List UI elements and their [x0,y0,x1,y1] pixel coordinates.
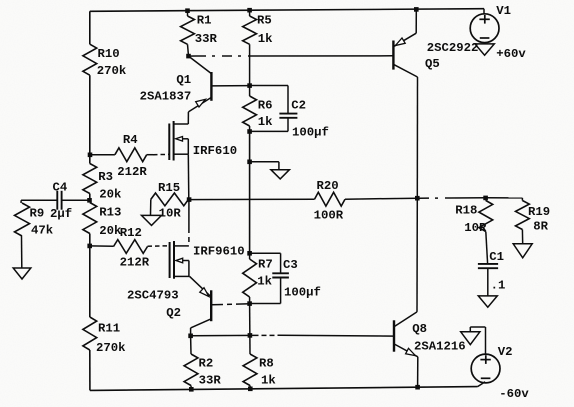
svg-text:-60v: -60v [499,387,529,401]
mosfet M2 IRF9610 channel bar [173,241,175,279]
wire R7 bottom lead [249,297,251,304]
wire left bias bus segment top [89,11,91,44]
label C1 value .1 [489,250,505,293]
wire R9 to ground [21,236,23,268]
wire C1 to ground [487,268,489,296]
label C4 value 2uf [50,180,72,221]
svg-text:Q1: Q1 [176,73,191,87]
wire output line dash-dot [419,197,450,199]
ground R15 [142,215,162,225]
transistor Q8 emitter arrow [406,348,416,355]
wire C3 bottom [250,278,281,304]
mosfet M1 IRF610 body-source join [187,139,189,154]
resistor R11 [83,317,97,350]
svg-text:R10: R10 [98,47,120,61]
node Q1 base / R5 bottom [247,83,252,88]
svg-text:20k: 20k [99,187,122,201]
svg-text:R2: R2 [199,357,214,371]
svg-text:33R: 33R [195,32,218,46]
svg-text:Q5: Q5 [425,57,440,71]
label R19 value 8R [528,205,550,234]
node R1 top [185,8,190,13]
label Q8 [412,322,427,336]
svg-text:R12: R12 [120,226,142,240]
svg-text:R19: R19 [528,205,550,219]
wire output line left [189,198,314,200]
wire mid bus R6 to ground tap [249,132,251,162]
wire Q8 collector up [416,198,418,312]
svg-text:C4: C4 [53,180,68,194]
label R3 value 20k [98,170,122,201]
mosfet M1 IRF610 body tap arrow [176,137,189,142]
label R13 value 20k [99,205,122,238]
label Q1 part 2SA1837 [140,90,192,104]
mosfet M2 IRF9610 body tap arrow [176,258,189,263]
resistor R4 [115,148,147,162]
label R12 value 212R [120,226,150,270]
svg-text:212R: 212R [120,255,150,269]
wire Q5 emitter down [416,77,418,198]
resistor R12 [114,240,148,254]
svg-text:20k: 20k [99,224,122,238]
wire R7 top lead [249,253,251,259]
svg-text:R1: R1 [197,13,212,27]
transistor Q2 collector [191,319,212,328]
wire left bus R10 to R3 [89,75,91,163]
voltage source V1 [470,14,499,43]
svg-text:270k: 270k [96,341,126,355]
label R6 value 1k [258,99,273,130]
node ground tap [247,160,252,165]
svg-text:R8: R8 [259,357,274,371]
label R11 value 270k [96,322,126,355]
capacitor C4 [57,191,61,210]
svg-text:2SC4793: 2SC4793 [127,289,179,303]
wire R2 bottom lead [190,386,192,390]
svg-text:Q2: Q2 [166,306,181,320]
transistor Q8 collector diag [394,312,417,327]
svg-text:1k: 1k [257,274,272,288]
mosfet M2 IRF9610 gate bar [169,242,171,278]
mosfet M1 IRF610 source tap [174,153,189,155]
wire R15 right lead [188,198,191,200]
svg-text:33R: 33R [199,373,222,387]
resistor R1 [181,16,195,44]
ground C1 [478,296,497,307]
label R15 value 10R [158,181,181,221]
label C2 value 100uf [291,98,329,139]
resistor R13 [83,203,97,234]
transistor Q2 emitter arrow [200,288,209,297]
svg-text:2SA1216: 2SA1216 [414,339,466,353]
resistor R3 [83,164,97,194]
svg-text:10R: 10R [159,206,182,220]
label V2 [498,345,513,359]
ground R19 [513,244,532,258]
label R1 value 33R [195,13,218,46]
wire R1 bottom lead [188,44,189,56]
svg-text:V1: V1 [496,4,511,18]
wire R6 top lead [249,86,251,96]
wire Q2 base dashed [218,303,237,306]
transistor Q1 emitter [188,97,211,112]
label R10 value 270k [97,47,127,78]
transistor Q5 collector arrow [395,38,405,46]
node R1 bottom / Q1 collector [186,54,191,59]
svg-text:2SC2922: 2SC2922 [427,41,479,55]
svg-text:R18: R18 [455,204,477,218]
resistor R9 [15,200,30,236]
wire Q8 emitter down [417,357,419,387]
resistor R8 [243,354,257,386]
svg-text:2µf: 2µf [50,207,72,221]
node R8 crossing [248,333,253,338]
wire ground tap [250,162,279,170]
svg-text:R9: R9 [30,207,45,221]
svg-text:R11: R11 [98,322,120,336]
resistor R10 [83,44,97,75]
svg-text:270k: 270k [97,64,127,78]
mosfet M2 IRF9610 drain tap [174,245,189,247]
ground V1 [475,44,494,55]
wire Q2 to Q8 base dash-dot [254,334,280,336]
node R7 top [247,251,252,256]
node R18 top [483,196,488,201]
node Q5 collector top [414,7,419,12]
svg-text:R3: R3 [98,170,113,184]
svg-text:Q8: Q8 [412,322,427,336]
wire R12 right lead [90,245,114,247]
wire Q2 to Q8 base solid left [191,334,254,336]
svg-text:R20: R20 [317,179,339,193]
wire R5 bottom lead [249,44,251,85]
label Q5 part 2SC2922 [427,41,479,55]
transistor Q5 base bar [392,41,394,70]
svg-text:212R: 212R [117,165,147,179]
node Q2 collector junction [188,334,193,339]
svg-text:IRF610: IRF610 [193,144,237,158]
wire R18 to R19 [486,197,522,199]
transistor Q1 collector [189,56,212,74]
transistor Q1 emitter arrow [196,99,206,107]
wire R4 left lead [90,154,115,156]
svg-text:V2: V2 [498,345,513,359]
svg-text:+60v: +60v [496,47,526,61]
label IRF610 [193,144,237,158]
node R8 bottom [248,387,253,392]
label R5 value 1k [257,13,273,46]
label IRF9610 [193,244,245,258]
wire Q5 base dash-dot [196,55,252,57]
wire R18 to C1 [486,232,488,264]
node R5 top [247,8,252,13]
wire mid bus ground tap to R7 [249,162,251,254]
wire Q2 base solid [211,304,249,305]
svg-text:C1: C1 [489,250,504,264]
svg-text:10R: 10R [464,221,487,235]
wire R15 left lead [150,199,152,215]
wire IRF9610 drain dashed [188,228,190,246]
wire Q1 base [211,85,249,87]
label R4 value 212R [117,133,147,179]
wire Q5 base solid left [189,55,197,57]
svg-text:R5: R5 [257,13,272,27]
resistor R15 [151,193,189,206]
resistor R7 [243,259,257,297]
label R20 value 100R [314,179,344,223]
svg-text:8R: 8R [533,220,548,234]
wire R8 bottom lead [249,386,251,389]
wire bottom rail -60v [90,387,478,391]
wire V1 bottom lead [484,43,486,44]
wire R4 to gate solid [147,154,153,156]
wire Q5 base solid right [252,55,393,57]
wire output line right [450,197,486,199]
resistor R2 [184,354,198,386]
resistor R18 [479,198,493,232]
label V1 value +60v [496,47,526,61]
node C4 junction [87,198,92,203]
ground mid [271,170,290,179]
wire IRF9610 gate lead dashed [148,245,170,247]
wire R19 to ground [521,230,523,244]
svg-text:R15: R15 [158,181,180,195]
wire Q2 to Q8 base solid right [279,334,394,337]
svg-text:R6: R6 [258,99,273,113]
node R6 bottom [247,129,252,134]
wire Q2 collector down [190,328,192,336]
node R4 junction [88,153,93,158]
resistor R5 [243,16,257,44]
wire left bus R13 to R11 [89,234,91,318]
label Q1 [176,73,191,87]
wire IRF610 source to output node [187,154,190,199]
node Q8 emitter rail [415,385,420,390]
label V2 value -60v [499,387,529,401]
svg-text:1k: 1k [258,32,273,46]
svg-text:C3: C3 [283,258,298,272]
transistor Q5 collector diag [393,33,416,47]
label R2 value 33R [199,357,222,388]
wire top rail +60v [90,9,484,12]
wire R5 top lead [249,10,251,16]
svg-text:R13: R13 [99,205,121,219]
capacitor C1 [478,264,498,268]
label V1 [496,4,511,18]
wire C2 bottom [250,118,288,132]
capacitor C3 [272,273,289,277]
mosfet M1 IRF610 drain tap [174,123,189,125]
svg-text:100µf: 100µf [292,125,329,139]
label R18 value 10R [455,204,487,236]
wire Q5 collector [415,9,417,33]
svg-text:R7: R7 [258,258,273,272]
svg-text:2SA1837: 2SA1837 [140,90,192,104]
transistor Q8 base bar [393,320,395,351]
node R2 bottom [189,387,194,392]
svg-text:1k: 1k [261,373,276,387]
transistor Q8 emitter [394,344,418,357]
svg-text:.1: .1 [491,279,506,293]
wire R2 top lead [190,336,192,354]
wire R9 to C4 [21,199,57,201]
node output junction [415,196,420,201]
wire bottom rail jog to V2 [478,382,486,387]
svg-text:1k: 1k [258,115,273,129]
label R7 value 1k [257,258,273,289]
wire IRF610 gate lead dashed [153,153,169,155]
svg-text:R4: R4 [123,133,138,147]
node Q2 base junction [247,301,252,306]
mosfet M1 IRF610 channel bar [173,121,175,161]
transistor Q1 2SA1837 base bar [210,72,212,101]
capacitor C2 [279,114,297,118]
label Q2 part 2SC4793 [127,289,179,303]
svg-text:100µf: 100µf [284,285,321,299]
wire V1 top lead [483,9,485,14]
mosfet M1 IRF610 gate bar [168,124,170,161]
label Q8 part 2SA1216 [414,339,466,353]
wire C3 top [250,253,281,273]
resistor R6 [243,96,257,126]
wire C4 to bus [62,199,90,201]
wire R8 top lead [249,304,251,354]
label R9 value 47k [30,207,54,238]
wire left bus R3 to R13 [89,194,91,203]
svg-text:100R: 100R [314,209,344,223]
label Q2 [166,306,181,320]
voltage source V2 [471,354,500,383]
ground V2 [461,332,480,345]
node output junction left [187,197,192,202]
wire output line mid [345,198,417,199]
label R8 value 1k [259,357,276,388]
svg-text:IRF9610: IRF9610 [193,244,245,258]
wire IRF9610 to Q2 emitter [190,276,212,297]
transistor Q2 base bar [210,290,212,321]
wire Q1 emitter to IRF610 drain [187,112,189,124]
wire V2 top lead [470,327,485,354]
wire C2 top [250,86,288,114]
wire output node to IRF9610 drain [188,200,190,228]
svg-text:47k: 47k [31,224,54,238]
node R12 junction [87,244,92,249]
wire left bus R11 to rail [89,350,91,390]
svg-text:C2: C2 [291,98,306,112]
transistor Q5 emitter [393,64,417,77]
label Q5 [425,57,440,71]
mosfet M2 IRF9610 body-source join [188,261,190,277]
wire R1 top lead [187,11,189,16]
ground R9 [13,268,31,279]
resistor R19 [516,198,530,230]
mosfet M2 IRF9610 source tap [174,275,190,277]
label C3 value 100uf [283,258,321,300]
wire R6 bottom lead [249,126,251,132]
resistor R20 [315,192,346,206]
